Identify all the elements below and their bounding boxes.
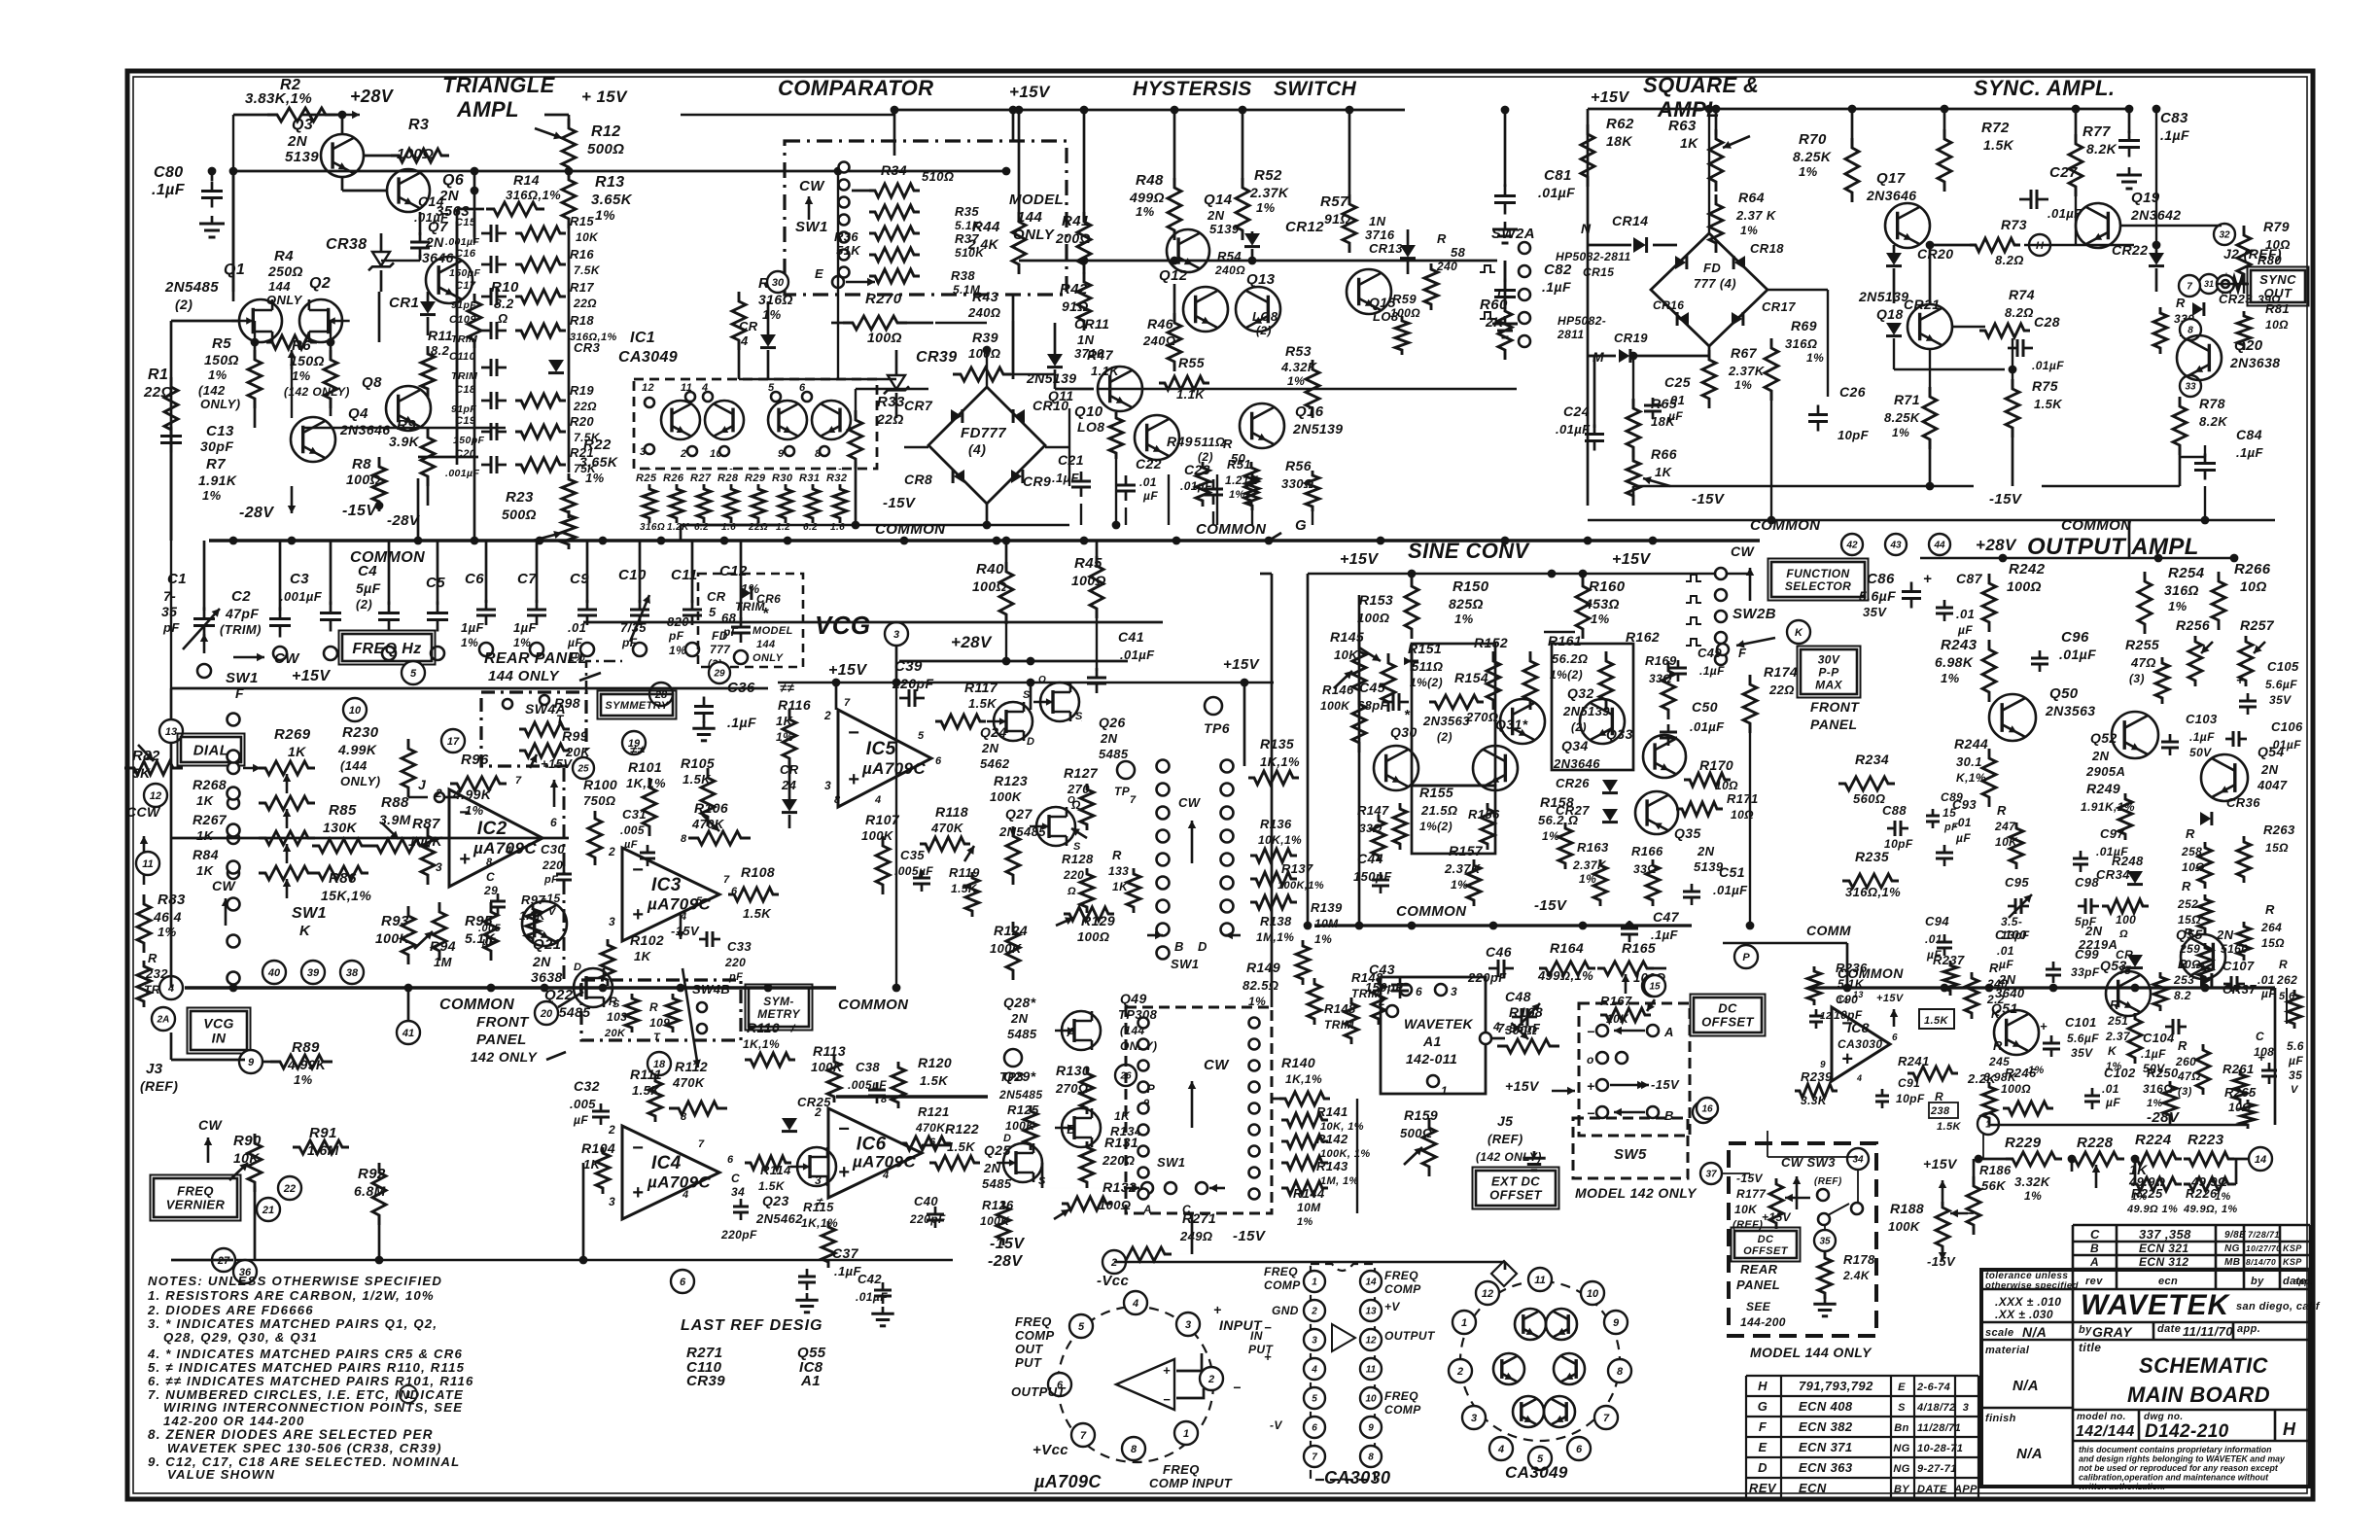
svg-text:1M, 1%: 1M, 1% bbox=[1320, 1175, 1359, 1187]
op-amp IC8 CA3030 bbox=[1832, 1007, 1890, 1081]
svg-text:9: 9 bbox=[1368, 1423, 1374, 1434]
sine conv bracket box2 bbox=[1412, 786, 1495, 854]
svg-text:4: 4 bbox=[682, 1189, 689, 1201]
svg-text:29: 29 bbox=[483, 884, 498, 897]
svg-text:30pF: 30pF bbox=[200, 438, 233, 454]
svg-text:R166: R166 bbox=[1631, 844, 1663, 858]
wire bbox=[1708, 171, 1710, 233]
svg-text:CR20: CR20 bbox=[1917, 246, 1953, 262]
svg-text:150pF: 150pF bbox=[1365, 980, 1404, 995]
svg-text:+ 15V: + 15V bbox=[581, 87, 628, 106]
svg-text:R123: R123 bbox=[994, 773, 1028, 788]
svg-text:35: 35 bbox=[2289, 1068, 2302, 1082]
svg-text:2N3646: 2N3646 bbox=[339, 422, 390, 437]
pin ring ca3049 bbox=[1476, 1281, 1499, 1305]
svg-text:COMM: COMM bbox=[1806, 923, 1851, 938]
svg-text:+15V: +15V bbox=[541, 756, 573, 771]
svg-text:100Ω: 100Ω bbox=[867, 330, 902, 345]
svg-text:3: 3 bbox=[609, 915, 615, 928]
svg-text:S: S bbox=[1898, 1402, 1906, 1414]
svg-text:CR36: CR36 bbox=[2226, 795, 2260, 810]
svg-text:ONLY: ONLY bbox=[752, 652, 785, 664]
wire bbox=[1749, 723, 1751, 926]
svg-text:+: + bbox=[1841, 1048, 1853, 1069]
diode CR19b bbox=[1619, 349, 1629, 363]
switch SW1 dashed box bbox=[785, 141, 1067, 295]
svg-text:56.2 Ω: 56.2 Ω bbox=[1538, 813, 1578, 827]
svg-text:144: 144 bbox=[756, 639, 776, 650]
svg-text:7: 7 bbox=[2187, 282, 2192, 293]
svg-text:1%: 1% bbox=[585, 471, 605, 485]
svg-text:+15V: +15V bbox=[828, 662, 867, 679]
svg-text:P: P bbox=[1742, 952, 1750, 963]
svg-text:3.9K: 3.9K bbox=[389, 434, 420, 449]
svg-text:6. ≠≠ INDICATES MATCHED PAIR: 6. ≠≠ INDICATES MATCHED PAIRS R101, R116 bbox=[148, 1374, 474, 1388]
label box VCG IN bbox=[191, 1011, 247, 1050]
svg-text:2N3563: 2N3563 bbox=[1422, 714, 1470, 728]
svg-text:C83: C83 bbox=[2160, 110, 2188, 126]
wire ic4 leads bbox=[583, 621, 1163, 624]
node 8 bbox=[2180, 319, 2201, 340]
svg-text:C: C bbox=[2256, 1030, 2264, 1043]
svg-text:316Ω: 316Ω bbox=[2164, 582, 2199, 598]
svg-text:Q3: Q3 bbox=[292, 117, 313, 133]
svg-text:7: 7 bbox=[844, 697, 851, 709]
svg-text:COMMON: COMMON bbox=[875, 521, 946, 538]
svg-text:5: 5 bbox=[1312, 1394, 1317, 1405]
svg-text:8: 8 bbox=[2187, 326, 2193, 336]
op-amp inside pinout bbox=[1116, 1359, 1174, 1410]
svg-text:+: + bbox=[1923, 571, 1932, 587]
svg-text:G: G bbox=[1758, 1399, 1768, 1414]
node 21 bbox=[257, 1198, 280, 1221]
svg-text:1%: 1% bbox=[1451, 878, 1468, 892]
svg-text:-15V: -15V bbox=[1534, 897, 1568, 914]
svg-text:34: 34 bbox=[731, 1185, 745, 1199]
net COMMON top bus bbox=[209, 539, 1760, 542]
svg-text:39: 39 bbox=[307, 967, 320, 979]
label box SYM-METRY bbox=[749, 988, 809, 1027]
svg-text:METRY: METRY bbox=[757, 1007, 800, 1021]
svg-text:B: B bbox=[1174, 939, 1184, 954]
svg-text:11: 11 bbox=[142, 858, 153, 870]
resistors R25-R32 under IC1 bbox=[643, 484, 656, 523]
svg-text:C31: C31 bbox=[622, 807, 647, 822]
transistors inside ca3049 bbox=[1515, 1309, 1546, 1340]
svg-text:NG: NG bbox=[1893, 1463, 1909, 1475]
svg-text:5: 5 bbox=[709, 605, 717, 619]
wire bbox=[739, 378, 896, 380]
svg-text:COMMON: COMMON bbox=[838, 997, 909, 1013]
svg-text:4047: 4047 bbox=[2257, 778, 2288, 792]
svg-text:C87: C87 bbox=[1956, 571, 1983, 586]
svg-text:1%: 1% bbox=[1799, 164, 1818, 179]
svg-text:8: 8 bbox=[834, 794, 841, 806]
svg-text:R87: R87 bbox=[412, 816, 440, 832]
wire bbox=[232, 171, 235, 301]
svg-text:E: E bbox=[1758, 1440, 1767, 1454]
svg-text:C101: C101 bbox=[2065, 1015, 2097, 1030]
svg-text:2N3646: 2N3646 bbox=[1866, 188, 1916, 203]
svg-text:+: + bbox=[848, 769, 859, 790]
wire bbox=[170, 428, 173, 541]
svg-text:CR8: CR8 bbox=[904, 472, 932, 487]
wire bbox=[681, 114, 894, 116]
svg-text:OFFSET: OFFSET bbox=[1489, 1188, 1542, 1203]
svg-text:WAVETEK: WAVETEK bbox=[2081, 1289, 2230, 1321]
svg-text:o: o bbox=[1587, 1053, 1594, 1067]
svg-text:C51: C51 bbox=[1719, 864, 1745, 880]
svg-text:R124: R124 bbox=[994, 923, 1028, 938]
svg-text:ONLY): ONLY) bbox=[340, 774, 380, 788]
svg-text:3: 3 bbox=[893, 629, 899, 641]
node 31 bbox=[2199, 274, 2219, 294]
svg-text:R48: R48 bbox=[1136, 172, 1164, 189]
test point TP6 bbox=[1205, 697, 1222, 715]
svg-text:2219A: 2219A bbox=[2078, 937, 2117, 952]
svg-text:316Ω: 316Ω bbox=[1785, 336, 1817, 351]
svg-text:1%: 1% bbox=[1136, 204, 1155, 219]
svg-text:R12: R12 bbox=[591, 123, 621, 140]
svg-text:1%: 1% bbox=[208, 367, 227, 382]
svg-text:262: 262 bbox=[2276, 973, 2297, 987]
pin 6 bbox=[1048, 1373, 1071, 1396]
svg-text:7: 7 bbox=[515, 775, 522, 787]
svg-text:130K: 130K bbox=[323, 820, 358, 835]
svg-text:150Ω: 150Ω bbox=[290, 353, 325, 368]
svg-text:6.8M: 6.8M bbox=[354, 1183, 386, 1199]
svg-text:21.5Ω: 21.5Ω bbox=[1420, 803, 1457, 818]
svg-text:-28V: -28V bbox=[2147, 1109, 2181, 1126]
svg-text:Q6: Q6 bbox=[442, 172, 464, 189]
svg-text:5: 5 bbox=[918, 730, 925, 742]
svg-text:R73: R73 bbox=[2001, 217, 2027, 232]
svg-text:35: 35 bbox=[161, 604, 177, 619]
wire bbox=[904, 446, 928, 448]
svg-text:R236: R236 bbox=[1836, 961, 1868, 975]
svg-text:REAR PANEL: REAR PANEL bbox=[484, 650, 588, 667]
svg-text:7: 7 bbox=[1080, 1430, 1087, 1442]
svg-text:C102: C102 bbox=[2104, 1066, 2136, 1080]
svg-text:2.4K: 2.4K bbox=[967, 236, 999, 252]
svg-text:BY: BY bbox=[1894, 1484, 1910, 1495]
svg-text:R84: R84 bbox=[192, 847, 219, 862]
svg-text:C82: C82 bbox=[1544, 262, 1572, 278]
svg-text:C26: C26 bbox=[1839, 384, 1866, 400]
svg-text:TP: TP bbox=[1114, 785, 1131, 798]
svg-text:(142 ONLY): (142 ONLY) bbox=[284, 385, 350, 399]
svg-text:R235: R235 bbox=[1855, 849, 1889, 864]
svg-text:(2): (2) bbox=[175, 297, 192, 312]
svg-text:(REF): (REF) bbox=[1487, 1132, 1523, 1146]
svg-text:µA709C: µA709C bbox=[1033, 1472, 1102, 1491]
wire bbox=[1632, 356, 1634, 408]
svg-text:C14: C14 bbox=[418, 193, 444, 209]
node 16b bbox=[1697, 1098, 1718, 1119]
svg-text:.005µF: .005µF bbox=[894, 864, 933, 878]
svg-text:.XXX ± .010: .XXX ± .010 bbox=[1995, 1295, 2061, 1309]
svg-text:.1µF: .1µF bbox=[1052, 471, 1080, 485]
svg-text:−: − bbox=[1233, 1380, 1242, 1395]
svg-text:4: 4 bbox=[882, 1170, 890, 1181]
svg-text:R29: R29 bbox=[745, 472, 766, 484]
svg-text:R16: R16 bbox=[570, 247, 594, 262]
svg-text:5.6µF: 5.6µF bbox=[2265, 678, 2297, 691]
wire bbox=[456, 209, 459, 465]
svg-text:10pF: 10pF bbox=[1834, 1008, 1863, 1022]
svg-text:1.5K: 1.5K bbox=[920, 1073, 949, 1088]
svg-text:C80: C80 bbox=[154, 164, 184, 181]
svg-text:2.4K: 2.4K bbox=[1842, 1269, 1871, 1282]
label box DC OFFSET rear bbox=[1734, 1231, 1797, 1258]
label box DC OFFSET bbox=[1694, 997, 1762, 1032]
svg-text:Q30: Q30 bbox=[1390, 724, 1417, 740]
svg-text:100K: 100K bbox=[1320, 699, 1350, 713]
svg-text:R: R bbox=[1989, 961, 1999, 975]
svg-text:C48: C48 bbox=[1505, 989, 1531, 1004]
svg-text:511Ω: 511Ω bbox=[1412, 659, 1443, 674]
svg-text:R234: R234 bbox=[1855, 752, 1889, 767]
op-amp IC5 uA709C bbox=[838, 710, 931, 807]
svg-text:2N: 2N bbox=[1207, 208, 1225, 223]
svg-text:560Ω: 560Ω bbox=[1853, 791, 1885, 806]
svg-text:R249: R249 bbox=[2086, 781, 2120, 796]
svg-text:R118: R118 bbox=[935, 804, 968, 820]
svg-text:C11: C11 bbox=[671, 567, 698, 583]
svg-text:R28: R28 bbox=[717, 472, 739, 484]
svg-text:R136: R136 bbox=[1260, 817, 1292, 831]
svg-text:2: 2 bbox=[608, 845, 615, 858]
svg-text:COMMON: COMMON bbox=[1396, 903, 1467, 920]
svg-text:4/18/72: 4/18/72 bbox=[1916, 1402, 1956, 1414]
svg-text:S: S bbox=[1075, 711, 1083, 722]
svg-text:D: D bbox=[1003, 1133, 1011, 1144]
svg-text:by: by bbox=[2079, 1324, 2092, 1336]
svg-text:pF: pF bbox=[668, 629, 684, 643]
svg-text:CR14: CR14 bbox=[1612, 213, 1648, 228]
svg-text:2.2: 2.2 bbox=[1986, 993, 2005, 1006]
svg-text:R116: R116 bbox=[778, 697, 811, 713]
svg-text:2811: 2811 bbox=[1557, 328, 1584, 341]
wire bbox=[408, 796, 428, 798]
svg-text:4: 4 bbox=[1132, 1298, 1138, 1310]
svg-text:Q50: Q50 bbox=[2049, 685, 2079, 702]
svg-text:C36: C36 bbox=[727, 680, 755, 696]
wire bbox=[473, 342, 475, 541]
switch column B bbox=[1221, 760, 1234, 773]
svg-text:1.5K: 1.5K bbox=[968, 696, 997, 711]
svg-text:2N: 2N bbox=[2091, 749, 2110, 763]
svg-text:15Ω: 15Ω bbox=[2261, 936, 2285, 950]
svg-text:CW: CW bbox=[1731, 543, 1756, 559]
svg-text:5: 5 bbox=[410, 668, 417, 680]
svg-text:A1: A1 bbox=[800, 1373, 821, 1389]
svg-text:C105: C105 bbox=[2267, 659, 2299, 674]
svg-text:R13: R13 bbox=[595, 174, 625, 191]
svg-text:+15V: +15V bbox=[1591, 89, 1629, 106]
svg-text:C94: C94 bbox=[1925, 914, 1949, 928]
wire bbox=[473, 171, 476, 243]
svg-text:R90: R90 bbox=[233, 1133, 262, 1149]
pins right bbox=[1360, 1271, 1382, 1292]
svg-text:R31: R31 bbox=[799, 472, 820, 484]
svg-text:220pF: 220pF bbox=[1467, 970, 1507, 985]
svg-text:NG: NG bbox=[2224, 1243, 2240, 1254]
node 6 bbox=[671, 1270, 694, 1293]
pin 3 bbox=[1176, 1312, 1200, 1336]
svg-text:CR15: CR15 bbox=[1583, 265, 1614, 279]
wire bbox=[681, 524, 1069, 526]
svg-text:4. * INDICATES MATCHED PAIRS: 4. * INDICATES MATCHED PAIRS CR5 & CR6 bbox=[147, 1347, 463, 1361]
svg-text:ecn: ecn bbox=[2158, 1276, 2178, 1287]
svg-text:240: 240 bbox=[1986, 977, 2008, 991]
svg-text:R78: R78 bbox=[2199, 396, 2225, 411]
wire bbox=[1633, 485, 1974, 487]
svg-text:1%: 1% bbox=[595, 207, 615, 223]
svg-text:CR17: CR17 bbox=[1762, 299, 1796, 314]
svg-text:R140: R140 bbox=[1281, 1055, 1315, 1070]
wire bbox=[2243, 214, 2245, 235]
svg-text:22: 22 bbox=[283, 1183, 296, 1195]
wire bbox=[1083, 282, 1085, 321]
wire bbox=[1055, 388, 1094, 391]
wire bbox=[407, 988, 410, 1021]
svg-text:Q49: Q49 bbox=[1120, 991, 1147, 1006]
svg-text:IC4: IC4 bbox=[651, 1153, 682, 1173]
svg-text:Q54: Q54 bbox=[2257, 744, 2285, 759]
svg-text:Q4: Q4 bbox=[348, 405, 368, 422]
node 20 bbox=[535, 1001, 558, 1025]
svg-text:22Ω: 22Ω bbox=[1768, 682, 1795, 697]
svg-text:Q29*: Q29* bbox=[1003, 1068, 1036, 1084]
svg-text:C25: C25 bbox=[1664, 374, 1691, 390]
svg-text:1K: 1K bbox=[634, 949, 652, 963]
wire bbox=[171, 837, 569, 840]
node 28 bbox=[649, 682, 673, 706]
svg-text:R169: R169 bbox=[1645, 653, 1677, 668]
svg-text:100Ω: 100Ω bbox=[1390, 306, 1420, 320]
svg-text:.1µF: .1µF bbox=[2141, 1047, 2166, 1061]
svg-text:C49: C49 bbox=[1697, 646, 1722, 660]
svg-text:.01µF: .01µF bbox=[2032, 359, 2064, 372]
svg-text:2N: 2N bbox=[1697, 844, 1715, 858]
node P bbox=[1734, 945, 1758, 968]
wire bbox=[1358, 595, 1361, 926]
svg-text:4: 4 bbox=[874, 794, 882, 806]
svg-text:(REF): (REF) bbox=[1732, 1219, 1763, 1231]
svg-text:.01µF: .01µF bbox=[2059, 647, 2096, 662]
svg-text:220pF: 220pF bbox=[720, 1228, 757, 1242]
attenuator contacts left bbox=[1138, 1018, 1149, 1029]
svg-text:+: + bbox=[2236, 673, 2244, 687]
wire bbox=[1767, 1156, 1858, 1158]
svg-text:2N: 2N bbox=[1010, 1011, 1029, 1026]
wire bbox=[2155, 109, 2157, 245]
svg-text:13: 13 bbox=[1365, 1307, 1377, 1317]
note circle bbox=[400, 1385, 417, 1403]
svg-text:R: R bbox=[2110, 997, 2119, 1012]
svg-text:2. DIODES ARE FD6666: 2. DIODES ARE FD6666 bbox=[147, 1303, 314, 1317]
wire bbox=[1708, 109, 1710, 171]
svg-text:1%: 1% bbox=[2024, 1189, 2042, 1203]
svg-text:2.37K: 2.37K bbox=[1728, 364, 1766, 378]
svg-text:.01: .01 bbox=[2102, 1082, 2119, 1096]
node 32 bbox=[2214, 224, 2235, 245]
dash-dot front panel boundary bbox=[563, 768, 566, 980]
svg-text:FD777: FD777 bbox=[961, 425, 1006, 441]
svg-text:3: 3 bbox=[1185, 1319, 1191, 1331]
svg-text:SQUARE &: SQUARE & bbox=[1643, 73, 1759, 97]
svg-text:2905A: 2905A bbox=[2085, 764, 2125, 779]
svg-text:12: 12 bbox=[1365, 1336, 1377, 1347]
svg-text:R43: R43 bbox=[972, 289, 998, 304]
svg-text:R157: R157 bbox=[1449, 843, 1484, 858]
pin 1 bbox=[1174, 1421, 1198, 1445]
svg-text:C81: C81 bbox=[1544, 167, 1572, 184]
svg-text:DIAL: DIAL bbox=[193, 742, 229, 758]
svg-text:-15V: -15V bbox=[883, 495, 917, 511]
svg-text:R102: R102 bbox=[630, 932, 664, 948]
svg-text:4.99K: 4.99K bbox=[337, 742, 377, 757]
svg-text:240: 240 bbox=[1436, 260, 1457, 273]
svg-text:1K,1%: 1K,1% bbox=[1260, 754, 1300, 769]
svg-text:COMMON: COMMON bbox=[1196, 521, 1267, 538]
wire bbox=[1012, 321, 1014, 379]
svg-text:+: + bbox=[838, 1162, 850, 1183]
svg-text:C30: C30 bbox=[541, 842, 565, 857]
switch SW4A dashed box bbox=[481, 692, 586, 766]
svg-text:15K,1%: 15K,1% bbox=[321, 888, 371, 903]
svg-text:1.2: 1.2 bbox=[776, 522, 790, 533]
svg-text:1K: 1K bbox=[1655, 465, 1673, 479]
svg-text:10M: 10M bbox=[1314, 917, 1339, 930]
svg-text:R: R bbox=[1993, 1038, 2003, 1053]
svg-text:ECN 312: ECN 312 bbox=[2139, 1255, 2189, 1269]
wire bbox=[1012, 136, 1015, 141]
svg-text:FRONT: FRONT bbox=[1810, 699, 1860, 715]
svg-text:CW: CW bbox=[212, 878, 237, 893]
svg-text:142-011: 142-011 bbox=[1406, 1051, 1457, 1067]
svg-text:Q35: Q35 bbox=[1674, 825, 1701, 841]
svg-text:103: 103 bbox=[607, 1010, 627, 1024]
diode CR5 / CR6 model 144 box bbox=[698, 574, 803, 667]
node 19 bbox=[622, 731, 646, 754]
svg-text:R46: R46 bbox=[1147, 316, 1173, 332]
svg-text:C100: C100 bbox=[1995, 927, 2027, 942]
svg-text:-15V: -15V bbox=[1736, 1172, 1764, 1185]
svg-text:−: − bbox=[848, 722, 859, 744]
svg-text:150pF: 150pF bbox=[449, 267, 481, 279]
svg-text:R119: R119 bbox=[949, 865, 980, 880]
svg-text:R269: R269 bbox=[274, 726, 311, 743]
ground R178 bbox=[1824, 1297, 1827, 1304]
svg-text:PANEL: PANEL bbox=[1736, 1277, 1780, 1292]
svg-text:100Ω: 100Ω bbox=[2001, 1082, 2031, 1096]
svg-text:20: 20 bbox=[540, 1008, 553, 1020]
svg-text:CA3030: CA3030 bbox=[1837, 1037, 1882, 1051]
svg-text:CW: CW bbox=[1178, 795, 1202, 810]
svg-text:SWITCH: SWITCH bbox=[1274, 78, 1357, 100]
svg-text:22Ω: 22Ω bbox=[143, 384, 173, 401]
svg-text:R18: R18 bbox=[570, 313, 594, 328]
title block outer bbox=[1981, 1270, 2310, 1487]
svg-text:21: 21 bbox=[262, 1205, 274, 1216]
op-amp IC4 uA709C bbox=[622, 1126, 719, 1219]
svg-text:R: R bbox=[148, 951, 157, 965]
svg-text:R34: R34 bbox=[881, 162, 907, 178]
svg-text:CR9: CR9 bbox=[1023, 473, 1051, 489]
svg-text:O: O bbox=[1067, 795, 1075, 806]
